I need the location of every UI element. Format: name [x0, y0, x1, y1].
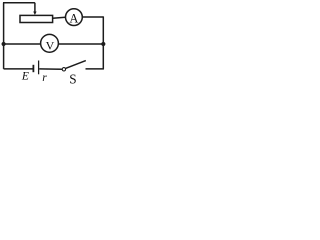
wire middle right (voltmeter to node)	[58, 43, 103, 45]
resistor R (rheostat box)	[20, 15, 53, 22]
battery positive plate (long)	[38, 61, 40, 75]
switch S pivot circle	[62, 68, 65, 71]
battery negative plate (short)	[32, 65, 34, 72]
svg-text:E: E	[21, 71, 29, 83]
svg-text:r: r	[42, 72, 47, 84]
wire top horizontal	[3, 2, 35, 4]
wire bottom left to battery	[4, 68, 33, 70]
wire left vertical	[3, 3, 5, 69]
ammeter A circle	[66, 9, 83, 26]
svg-text:S: S	[69, 71, 76, 85]
wire switch to bottom-right corner	[86, 68, 104, 70]
wire rheostat to ammeter	[53, 17, 66, 18]
wire right vertical	[102, 16, 104, 69]
svg-text:V: V	[46, 38, 55, 52]
svg-text:A: A	[69, 11, 78, 25]
wire middle left (node to voltmeter)	[4, 43, 41, 45]
wire ammeter to top-right corner	[82, 16, 103, 18]
switch S lever	[66, 61, 86, 69]
node junction dot right	[101, 42, 105, 46]
rheostat slider arrowhead	[33, 12, 36, 16]
wire battery to switch	[39, 68, 62, 70]
voltmeter V circle	[41, 34, 59, 52]
rheostat slider wire with arrow	[34, 3, 36, 12]
node junction dot left	[2, 42, 6, 46]
